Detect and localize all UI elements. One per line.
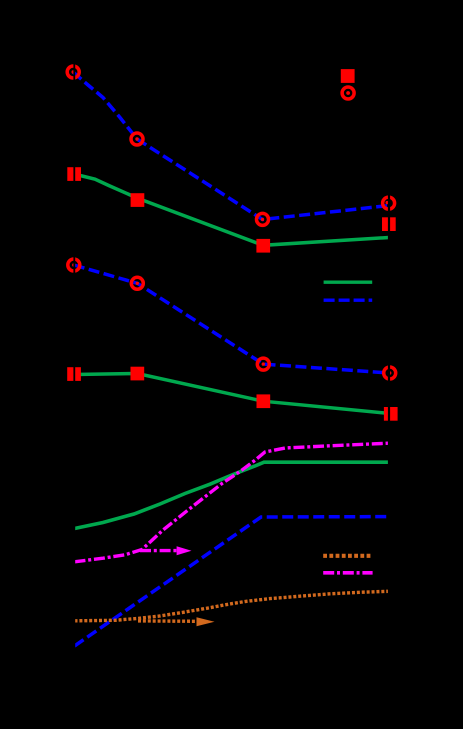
annotation arrow: orange arrowhead (197, 617, 215, 626)
line series: top blue dashed theory curve 1 (73, 72, 389, 220)
line series: top green solid theory curve 1 (74, 174, 389, 245)
marker: open circle data point Q3 (257, 358, 269, 370)
marker: filled square data point R2 (131, 367, 145, 381)
line series: middle blue dashed theory curve 2 (74, 265, 390, 373)
marker: filled square data point S3 (256, 239, 270, 253)
marker: open circle data point P3 (257, 213, 269, 225)
legend line: magenta dash-dot sample (323, 571, 372, 575)
marker: open circle data point Q2 (131, 277, 143, 289)
marker: open circle data point P2 (131, 133, 143, 145)
line series: bottom green solid curve (75, 462, 389, 528)
annotation arrow: magenta dash-dot shaft (140, 549, 177, 552)
legend marker: filled square (experiment A) (341, 69, 355, 83)
axis spine: left (black overdraw) (73, 0, 75, 729)
marker: open circle data point Q1 (68, 259, 80, 271)
line series: bottom blue dashed curve (75, 517, 389, 646)
marker: filled square data point S4 (382, 217, 396, 231)
legend line: green solid sample (324, 281, 373, 284)
marker: filled square data point R3 (257, 394, 271, 408)
line series: middle green solid theory curve 2 (74, 374, 390, 414)
marker: open circle data point P1 (67, 66, 79, 78)
marker: filled square data point R1 (67, 367, 81, 381)
marker: open circle data point Q4 (384, 367, 396, 379)
legend line: orange dotted sample (323, 554, 372, 558)
legend marker: open circle with dot (experiment B) (342, 87, 354, 99)
marker: filled square data point R4 (384, 407, 398, 421)
line series: bottom magenta dash-dot curve (75, 443, 389, 562)
line series: bottom orange dotted curve (75, 591, 389, 621)
annotation arrow: magenta arrowhead (177, 546, 192, 555)
axis spine: right (black overdraw) (388, 0, 390, 729)
annotation arrow: orange dotted shaft (138, 619, 197, 623)
marker: filled square data point S1 (67, 167, 81, 181)
marker: open circle data point P4 (383, 197, 395, 209)
marker: filled square data point S2 (131, 193, 145, 207)
legend line: blue dashed sample (324, 299, 373, 302)
